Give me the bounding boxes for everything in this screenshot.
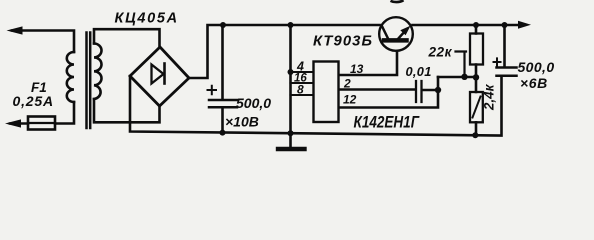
svg-text:КТ903Б: КТ903Б bbox=[313, 34, 373, 50]
svg-text:2,4к: 2,4к bbox=[482, 83, 497, 111]
svg-text:0,01: 0,01 bbox=[406, 64, 432, 79]
svg-text:2: 2 bbox=[343, 77, 351, 91]
svg-text:КЦ405А: КЦ405А bbox=[115, 11, 179, 27]
svg-text:13: 13 bbox=[350, 62, 364, 76]
svg-text:8: 8 bbox=[297, 83, 304, 97]
svg-text:12: 12 bbox=[343, 93, 357, 107]
svg-text:500,0: 500,0 bbox=[518, 59, 555, 75]
svg-text:×6В: ×6В bbox=[520, 75, 548, 91]
svg-text:4: 4 bbox=[296, 60, 304, 74]
svg-text:500,0: 500,0 bbox=[236, 95, 271, 111]
svg-text:22к: 22к bbox=[428, 45, 453, 60]
svg-text:К142ЕН1Г: К142ЕН1Г bbox=[354, 113, 420, 132]
svg-text:0,25А: 0,25А bbox=[13, 93, 54, 109]
svg-text:×10В: ×10В bbox=[225, 114, 259, 130]
